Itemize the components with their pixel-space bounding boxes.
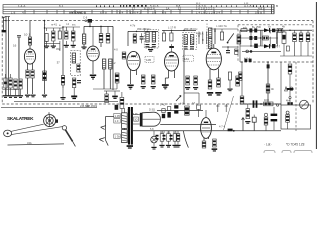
wire C40 top xyxy=(107,26,109,33)
capacitor C21 xyxy=(306,33,310,42)
wire x215 vertical xyxy=(214,29,216,44)
svg-text:4·0: 4·0 xyxy=(114,48,118,52)
wire C24 down xyxy=(289,90,291,97)
oscillator coil L5 xyxy=(109,59,112,69)
svg-text:8·4: 8·4 xyxy=(119,10,124,14)
tension spring xyxy=(65,130,75,147)
junction dots T2 row xyxy=(198,35,203,40)
wire y93 horizontal xyxy=(184,92,199,94)
tube V2 anode bar xyxy=(91,48,95,49)
svg-text:4·7b: 4·7b xyxy=(130,24,136,28)
IF T2 primary winding xyxy=(184,35,187,45)
junction dots detector xyxy=(250,37,261,46)
chassis dashed boundary left xyxy=(1,16,3,104)
tube V5 output envelope xyxy=(206,48,221,70)
tube V4 cathode leads xyxy=(165,71,174,85)
resistor R13 banded xyxy=(263,36,269,40)
capacitor C16 dark xyxy=(254,28,257,32)
wire V3 plate up xyxy=(136,52,138,56)
IF transformer T2 dashed can xyxy=(182,33,196,50)
resistor R29 on x63 xyxy=(61,76,64,86)
ground G16 xyxy=(227,89,232,92)
wire R5 down xyxy=(163,30,165,33)
antenna terminal A1 xyxy=(2,17,5,30)
junction dot antenna bus xyxy=(5,20,7,22)
svg-text:*D 7D45 1Z8: *D 7D45 1Z8 xyxy=(286,142,305,146)
ground G11 V4 dark xyxy=(162,84,169,89)
wire V4 right vertical xyxy=(183,50,185,104)
detector label row xyxy=(243,25,285,30)
svg-text:3Ω: 3Ω xyxy=(134,118,137,121)
ground G4 xyxy=(71,45,76,48)
ground G7 IF T1 xyxy=(148,49,153,52)
svg-text:1A: 1A xyxy=(166,6,170,10)
svg-text:4b4: 4b4 xyxy=(286,99,291,102)
fuse marks xyxy=(244,59,251,62)
oscillator section wire x63 xyxy=(62,27,64,88)
terminal label box a xyxy=(114,113,121,118)
diode D2 xyxy=(264,44,270,48)
junction dot grid bus 2 xyxy=(100,26,102,28)
ground G1 xyxy=(44,46,49,49)
audio rail upper xyxy=(157,110,203,112)
heater stub H2 xyxy=(225,104,228,112)
resistor R2 cathode xyxy=(26,70,29,78)
trimmer capacitor C4 xyxy=(52,31,55,41)
right bank bottom wire xyxy=(280,55,312,57)
bottom stamp boxes xyxy=(264,151,312,155)
capacitor C12 xyxy=(194,76,198,85)
RF coil can outline xyxy=(71,51,81,76)
grid cap V4 dark xyxy=(169,46,174,48)
ground G5 under L3 xyxy=(81,47,86,50)
junction circle lamp tap xyxy=(289,97,291,99)
ground G31 xyxy=(42,95,47,98)
label tuning cluster xyxy=(44,22,76,27)
dial scale frequency figures row A xyxy=(18,4,278,8)
svg-text:D·3Ω: D·3Ω xyxy=(149,109,155,112)
ground G26 xyxy=(30,95,35,98)
coupling capacitor C1 xyxy=(17,36,21,96)
tube V6 top lead xyxy=(205,110,207,118)
svg-text:1ZA: 1ZA xyxy=(184,57,189,61)
resistor R14 xyxy=(282,32,286,43)
capacitor C11 xyxy=(151,75,155,84)
wire C13 drop xyxy=(227,47,229,50)
component B4 small xyxy=(235,49,238,54)
coupling component X1 xyxy=(167,107,170,118)
wire AVC bus vertical xyxy=(18,37,20,78)
tube V1 grid bars xyxy=(26,54,34,59)
svg-text:B: B xyxy=(276,4,278,8)
wire C7 to tube V2 xyxy=(100,43,102,47)
tube V2 grid dashes xyxy=(88,51,98,56)
cord idler small xyxy=(62,126,66,130)
component R33 xyxy=(239,72,242,81)
svg-text:245·83Z: 245·83Z xyxy=(80,105,90,108)
tube V5 grid dashes xyxy=(207,55,221,66)
component dark after D2 xyxy=(272,44,275,48)
resistor R9 cathode xyxy=(208,80,212,89)
capacitor C9 xyxy=(140,33,144,43)
capacitor C7 xyxy=(99,34,103,43)
wire L3 to ground xyxy=(83,44,85,47)
svg-text:10·1: 10·1 xyxy=(24,33,30,37)
dial scale bottom row station names xyxy=(11,10,262,14)
padder capacitor C3 xyxy=(45,34,48,42)
capacitor C40 xyxy=(106,34,110,44)
svg-text:6·8: 6·8 xyxy=(162,10,167,14)
svg-text:5·2·B: 5·2·B xyxy=(255,11,262,15)
ground G20 xyxy=(151,147,156,150)
svg-text:1·8: 1·8 xyxy=(11,10,16,14)
B+ rail left vertical xyxy=(239,30,241,62)
component X2 dark xyxy=(185,106,190,115)
IF T1 primary winding xyxy=(146,32,149,42)
tuning gang C5a xyxy=(65,31,68,39)
series capacitor C25 dark xyxy=(253,100,258,107)
pointer bar xyxy=(106,117,114,146)
ground G13 xyxy=(193,87,198,90)
resistor R30 in can xyxy=(77,64,80,72)
FM coil dashed vertical xyxy=(206,24,208,51)
left idler pulley xyxy=(4,130,12,137)
oscillator coil L2 xyxy=(58,31,61,39)
capacitor C33 below can xyxy=(77,80,81,83)
capacitor C14 dark xyxy=(236,76,240,86)
svg-text:1·4 1·8 2·1 2·8 3·4: 1·4 1·8 2·1 2·8 3·4 xyxy=(196,11,220,15)
IF2 top wire xyxy=(162,29,196,31)
speaker LS1 frame bar xyxy=(140,113,142,127)
tube V4 anode bar xyxy=(169,55,174,57)
FM tuner coil L6 xyxy=(209,28,212,38)
resistor R18 vertical xyxy=(246,109,250,119)
tube V1 anode bar xyxy=(28,51,32,52)
dial scale middle row figures xyxy=(132,6,265,10)
resistor R5 xyxy=(162,33,165,41)
capacitor C36 dark xyxy=(249,36,252,40)
rail labels xyxy=(160,102,195,106)
right bank bottom drops xyxy=(284,42,308,56)
resistor R11 xyxy=(228,72,231,80)
tube V1 cathode leads xyxy=(28,63,33,70)
ground G10 xyxy=(151,86,156,89)
svg-text:m-41: m-41 xyxy=(51,23,57,27)
resistor R15 xyxy=(266,84,270,93)
tube V5 anode bar xyxy=(211,52,216,54)
svg-text:12B: 12B xyxy=(146,58,151,62)
electrolytic C32 dark xyxy=(43,71,47,81)
svg-text:t.·1b0·7A: t.·1b0·7A xyxy=(216,24,227,28)
ground G12 xyxy=(185,87,190,90)
chassis dashed boundary right xyxy=(312,21,314,104)
resistor R8 xyxy=(220,32,223,40)
svg-text:34A: 34A xyxy=(27,141,32,145)
svg-text:1·3b: 1·3b xyxy=(115,135,121,139)
audio rail mid xyxy=(160,124,216,126)
component X3 xyxy=(197,105,201,117)
power section dashed line xyxy=(240,61,313,63)
volume control arrow xyxy=(176,96,181,102)
antenna terminal block dark xyxy=(2,30,7,32)
right bank drop wires xyxy=(284,30,308,33)
heater wire W1 xyxy=(242,117,245,130)
IF T2 tuning cap left xyxy=(184,46,188,49)
ground G14 dark xyxy=(207,92,213,96)
tube V4 grid dashes xyxy=(166,57,178,66)
ground G18 dark xyxy=(212,148,218,151)
IF T2 tuning cap right xyxy=(190,46,194,49)
wire gang common xyxy=(59,41,61,51)
wire R16 down xyxy=(289,74,291,88)
ground G32 xyxy=(60,97,65,100)
svg-text:· Lat ·: · Lat · xyxy=(264,143,272,147)
wire left drop to L3 xyxy=(83,26,85,34)
ground G8 V3 cathode dark xyxy=(127,85,133,90)
secondary terminal box xyxy=(134,117,139,121)
svg-text:45Z: 45Z xyxy=(56,47,61,51)
speaker LS1 capsule xyxy=(142,112,160,126)
capacitor C31 xyxy=(19,79,22,89)
component C23 xyxy=(240,96,244,104)
tube V5 leads down xyxy=(210,69,219,80)
detector low wire xyxy=(240,45,278,47)
tube V3 IF amp envelope xyxy=(127,51,140,70)
junction dots rf xyxy=(44,26,64,28)
svg-text:12: 12 xyxy=(178,6,182,10)
IF T1 tuning cap left xyxy=(145,44,149,47)
resistor R27 xyxy=(4,78,7,88)
svg-text:1·4Ω: 1·4Ω xyxy=(160,103,165,106)
wire V2 top lead xyxy=(92,26,94,46)
svg-text:SKALATREK: SKALATREK xyxy=(7,116,34,121)
IF transformer T1 dashed can xyxy=(144,30,159,48)
wire can to ground xyxy=(73,88,75,96)
capacitor C28 xyxy=(156,131,164,145)
earth lead wire xyxy=(7,17,9,96)
resistor R1 xyxy=(28,37,31,45)
ground G29 xyxy=(13,95,18,98)
wire det vertical x262 xyxy=(261,30,263,46)
wire T3 primary join xyxy=(123,128,125,129)
switch S2 dark on bus xyxy=(228,129,235,132)
chassis dashed boundary bottom xyxy=(2,103,281,105)
wire T3 top lead xyxy=(123,108,125,113)
resistor R25 xyxy=(170,131,177,145)
cord upper run xyxy=(11,124,44,131)
switch arm diagonal xyxy=(227,33,234,43)
tube V4 envelope xyxy=(165,52,179,71)
wire top bus 200-240 xyxy=(210,28,238,30)
chassis dashed boundary top xyxy=(3,20,313,22)
svg-text:17·6·4·2: 17·6·4·2 xyxy=(130,10,141,14)
dropper resistor R16 xyxy=(288,64,292,74)
speaker cone line xyxy=(142,118,160,120)
ground G34 under core dark xyxy=(127,145,133,148)
component dark after D1 xyxy=(272,29,275,33)
output transformer T3 primary lower xyxy=(122,130,128,143)
junction dot x215 xyxy=(214,30,216,32)
svg-text:C·6: C·6 xyxy=(83,16,88,20)
wire R18 top xyxy=(247,104,249,109)
plug symbol circle xyxy=(290,87,294,91)
oscillator coil L4 xyxy=(102,59,105,69)
junction dot bus xyxy=(260,103,262,105)
ground G6 cathode V2 dark xyxy=(90,75,96,80)
dial scale rule line 1 xyxy=(3,6,274,8)
capacitor C29 xyxy=(163,131,171,145)
junction dot grid bus xyxy=(89,26,91,28)
terminal label box b xyxy=(114,119,120,124)
svg-text:16: 16 xyxy=(13,44,17,48)
ground bus line left xyxy=(14,101,118,103)
ground G3 xyxy=(64,45,69,48)
terminal label box c xyxy=(114,134,121,139)
svg-text:1·4·A: 1·4·A xyxy=(18,4,25,8)
resistor R23 xyxy=(105,94,109,103)
tube V1 envelope xyxy=(24,49,35,64)
electrolytic C26 dark xyxy=(271,107,278,130)
cord middle run xyxy=(11,127,62,135)
tube V2 cathode lead xyxy=(92,61,94,74)
pointer cord diagonal xyxy=(224,96,234,130)
wire R11 down xyxy=(229,80,231,88)
svg-text:1·0: 1·0 xyxy=(115,119,119,123)
FM tuner coil L7 xyxy=(209,39,212,49)
page right border xyxy=(315,2,317,149)
dial scale rule line 3 xyxy=(3,11,274,13)
svg-text:L·17·R: L·17·R xyxy=(168,26,176,30)
ground G21 xyxy=(159,145,164,148)
wire ferrite antenna feed xyxy=(29,21,31,37)
wire cathode to ground bus xyxy=(28,78,33,94)
tube V2 converter envelope xyxy=(87,46,99,61)
tube V3 type label box xyxy=(145,57,154,63)
wire output top bus xyxy=(104,90,120,92)
tube V6 inner bars xyxy=(202,124,210,132)
detector vertical stubs xyxy=(251,30,278,46)
resistor R24 with bands xyxy=(120,92,124,113)
capacitor C38 dark xyxy=(254,44,258,48)
wire IF1 left drop xyxy=(127,31,129,46)
detector mid wire xyxy=(240,37,278,39)
pilot lamp P1 xyxy=(300,100,309,109)
wire stubs resistor row xyxy=(6,74,21,95)
ground G24 xyxy=(175,145,180,148)
ground G9 xyxy=(141,86,146,89)
RF coil L8 xyxy=(72,53,75,63)
capacitor C27 dark on wire xyxy=(287,102,292,105)
tube V3 grid dashes xyxy=(128,57,139,64)
wire screen supply vertical xyxy=(44,21,46,94)
resistor R3 xyxy=(133,34,136,43)
wire R8 top xyxy=(221,29,223,32)
wire R6 down xyxy=(170,30,172,33)
ground bus left xyxy=(2,89,19,91)
svg-text:6·7·8: 6·7·8 xyxy=(100,10,107,14)
wires between T2 and FM unit xyxy=(199,32,206,45)
wire x113 to G19 xyxy=(114,91,116,96)
pilot lamp P2 xyxy=(151,131,158,147)
wire L4 bottom xyxy=(103,69,105,89)
feed box dark xyxy=(115,105,119,110)
component C13 xyxy=(226,50,230,53)
tube V3 leads xyxy=(131,70,137,84)
resistor R17 horizontal xyxy=(264,102,273,106)
resistor R26 xyxy=(176,131,180,145)
detector top wire xyxy=(240,29,312,31)
padder capacitor C8 dark xyxy=(115,73,119,83)
IF T1 secondary winding xyxy=(152,32,155,42)
transformer T3 core bar left xyxy=(128,107,130,145)
wire right drop x113 xyxy=(112,26,114,90)
wire drop to C7 xyxy=(100,26,102,33)
dial scale outer frame xyxy=(3,5,274,14)
svg-text:6·1: 6·1 xyxy=(59,4,64,8)
power box outline xyxy=(281,105,311,129)
dial scale tick marks lower row xyxy=(25,10,264,14)
wire osc bus drop xyxy=(116,83,118,89)
cord bottom long run xyxy=(8,144,65,145)
capacitor C24 dark bar xyxy=(287,88,294,90)
resistor R12 banded xyxy=(277,28,283,32)
svg-text:37: 37 xyxy=(57,61,61,65)
power section dashed top xyxy=(238,24,312,26)
tube V6 leads xyxy=(204,137,209,142)
ground G33 dark xyxy=(71,96,77,100)
ground G19 dark xyxy=(112,96,118,99)
wire curve W3 xyxy=(183,131,188,148)
capacitor C30 xyxy=(14,79,17,89)
wire det vertical x276 xyxy=(275,32,277,44)
component X0 rail end xyxy=(162,109,165,119)
ground G27 xyxy=(3,95,8,98)
tube V3 anode bar xyxy=(131,55,136,57)
wire IF T1 bottom xyxy=(147,46,153,48)
component top stubs xyxy=(47,27,74,46)
wire L5 bottom xyxy=(109,69,111,89)
ground G22 xyxy=(166,145,171,148)
power box left riser xyxy=(280,62,282,105)
dial cord top rail xyxy=(1,106,97,108)
ground G15 dark xyxy=(215,92,221,96)
power section dashed vertical xyxy=(295,62,297,131)
band switch S1 on chassis line xyxy=(85,19,92,23)
svg-text:1D0: 1D0 xyxy=(264,98,269,102)
component C22 mid xyxy=(286,46,289,51)
dial drum pulley xyxy=(44,115,58,127)
wire second top bus xyxy=(63,26,80,28)
capacitor C37 dark xyxy=(254,36,257,40)
drum shaft mark xyxy=(48,112,50,114)
ground G23 xyxy=(172,145,177,148)
resistor R20 below V6 xyxy=(202,141,206,148)
B+ vertical wire xyxy=(267,62,269,104)
heater wire W2 with connector xyxy=(252,115,256,131)
heater stub H1 xyxy=(216,104,219,112)
ground G28 xyxy=(8,95,13,98)
wire S1 down xyxy=(89,23,91,27)
oscillator coil L3 xyxy=(82,34,85,44)
svg-text:5·3: 5·3 xyxy=(152,10,157,14)
resistor R4 xyxy=(141,75,145,84)
svg-text:A·B·A: A·B·A xyxy=(197,32,204,35)
transformer T3 core bar right xyxy=(131,107,133,145)
output transformer T3 primary upper xyxy=(122,113,128,129)
resistor R7 xyxy=(186,76,190,85)
resistor R19 in box xyxy=(286,111,290,129)
dial scale end double bar xyxy=(272,5,274,14)
